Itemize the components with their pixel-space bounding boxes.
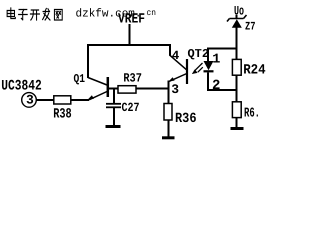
- optocoupler QT2 phototransistor collector: [170, 55, 187, 70]
- resistor R37: [118, 86, 136, 93]
- wire R24 to R6: [236, 76, 238, 102]
- resistor R6: [232, 102, 241, 118]
- svg-text:VREF: VREF: [118, 11, 145, 27]
- capacitor C27 plates: [106, 103, 121, 105]
- optocoupler QT2 emitter arrow: [169, 77, 175, 81]
- zener Z7 triangle: [232, 19, 242, 28]
- ground under C27: [106, 125, 121, 128]
- wire pin 4 lead: [169, 44, 171, 56]
- resistor R36: [164, 104, 172, 121]
- wire zener junction to LED pin1: [207, 48, 238, 50]
- svg-text:QT2: QT2: [188, 47, 210, 61]
- capacitor C27 bottom lead: [113, 108, 115, 126]
- optocoupler LED bottom lead pin 2: [207, 73, 209, 91]
- node pin 3 circle of UC3842: [22, 93, 37, 108]
- ground under R6: [231, 127, 244, 130]
- svg-text:1: 1: [212, 52, 220, 67]
- optocoupler LED triangle: [204, 61, 214, 70]
- svg-text:R36: R36: [175, 111, 197, 127]
- wire pin3 node lead down to R36: [168, 81, 170, 104]
- optocoupler light arrows: [194, 63, 202, 71]
- svg-text:R6.: R6.: [244, 106, 260, 121]
- wire LED pin2 to divider junction: [207, 89, 238, 91]
- svg-text:R24: R24: [243, 62, 266, 78]
- transistor Q1 emitter arrow: [88, 95, 94, 99]
- optocoupler LED cathode bar: [204, 70, 214, 72]
- svg-text:R37: R37: [123, 72, 141, 86]
- ground under R36: [162, 136, 175, 139]
- svg-text:cn: cn: [147, 8, 157, 18]
- svg-text:UC3842: UC3842: [1, 78, 42, 94]
- wire VREF rail: [87, 44, 171, 46]
- svg-text:Q1: Q1: [74, 72, 86, 86]
- resistor R24: [232, 59, 241, 75]
- optocoupler QT2 phototransistor emitter: [169, 74, 187, 82]
- resistor R38: [54, 96, 71, 104]
- svg-text:R38: R38: [53, 107, 71, 123]
- wire R38 to Q1 emitter: [71, 99, 89, 101]
- wire R6 to ground: [236, 118, 238, 129]
- wire pin3 to R38: [36, 99, 53, 101]
- svg-text:C27: C27: [122, 101, 140, 115]
- optocoupler QT2 phototransistor bar: [186, 59, 188, 84]
- svg-text:3: 3: [171, 82, 179, 97]
- optocoupler LED top lead pin 1: [207, 48, 209, 62]
- wire Q1 base to R37 to pin3 node: [109, 88, 169, 90]
- zener Z7 cathode bar: [227, 15, 247, 22]
- transistor Q1 base bar: [107, 77, 110, 97]
- transistor Q1 emitter diagonal: [89, 92, 107, 100]
- svg-text:Z7: Z7: [245, 21, 256, 34]
- svg-text:3: 3: [26, 93, 34, 108]
- wire left drop to Q1 collector: [87, 44, 89, 78]
- capacitor C27 top lead: [113, 89, 115, 104]
- wire zener to R24: [236, 28, 238, 60]
- wire VREF lead: [129, 24, 131, 46]
- wire R36 to ground: [168, 120, 170, 137]
- watermark chinese 电子开发网: [7, 8, 62, 20]
- transistor Q1 collector diagonal: [88, 78, 107, 86]
- wire Uo lead: [236, 15, 238, 18]
- svg-text:2: 2: [212, 78, 220, 94]
